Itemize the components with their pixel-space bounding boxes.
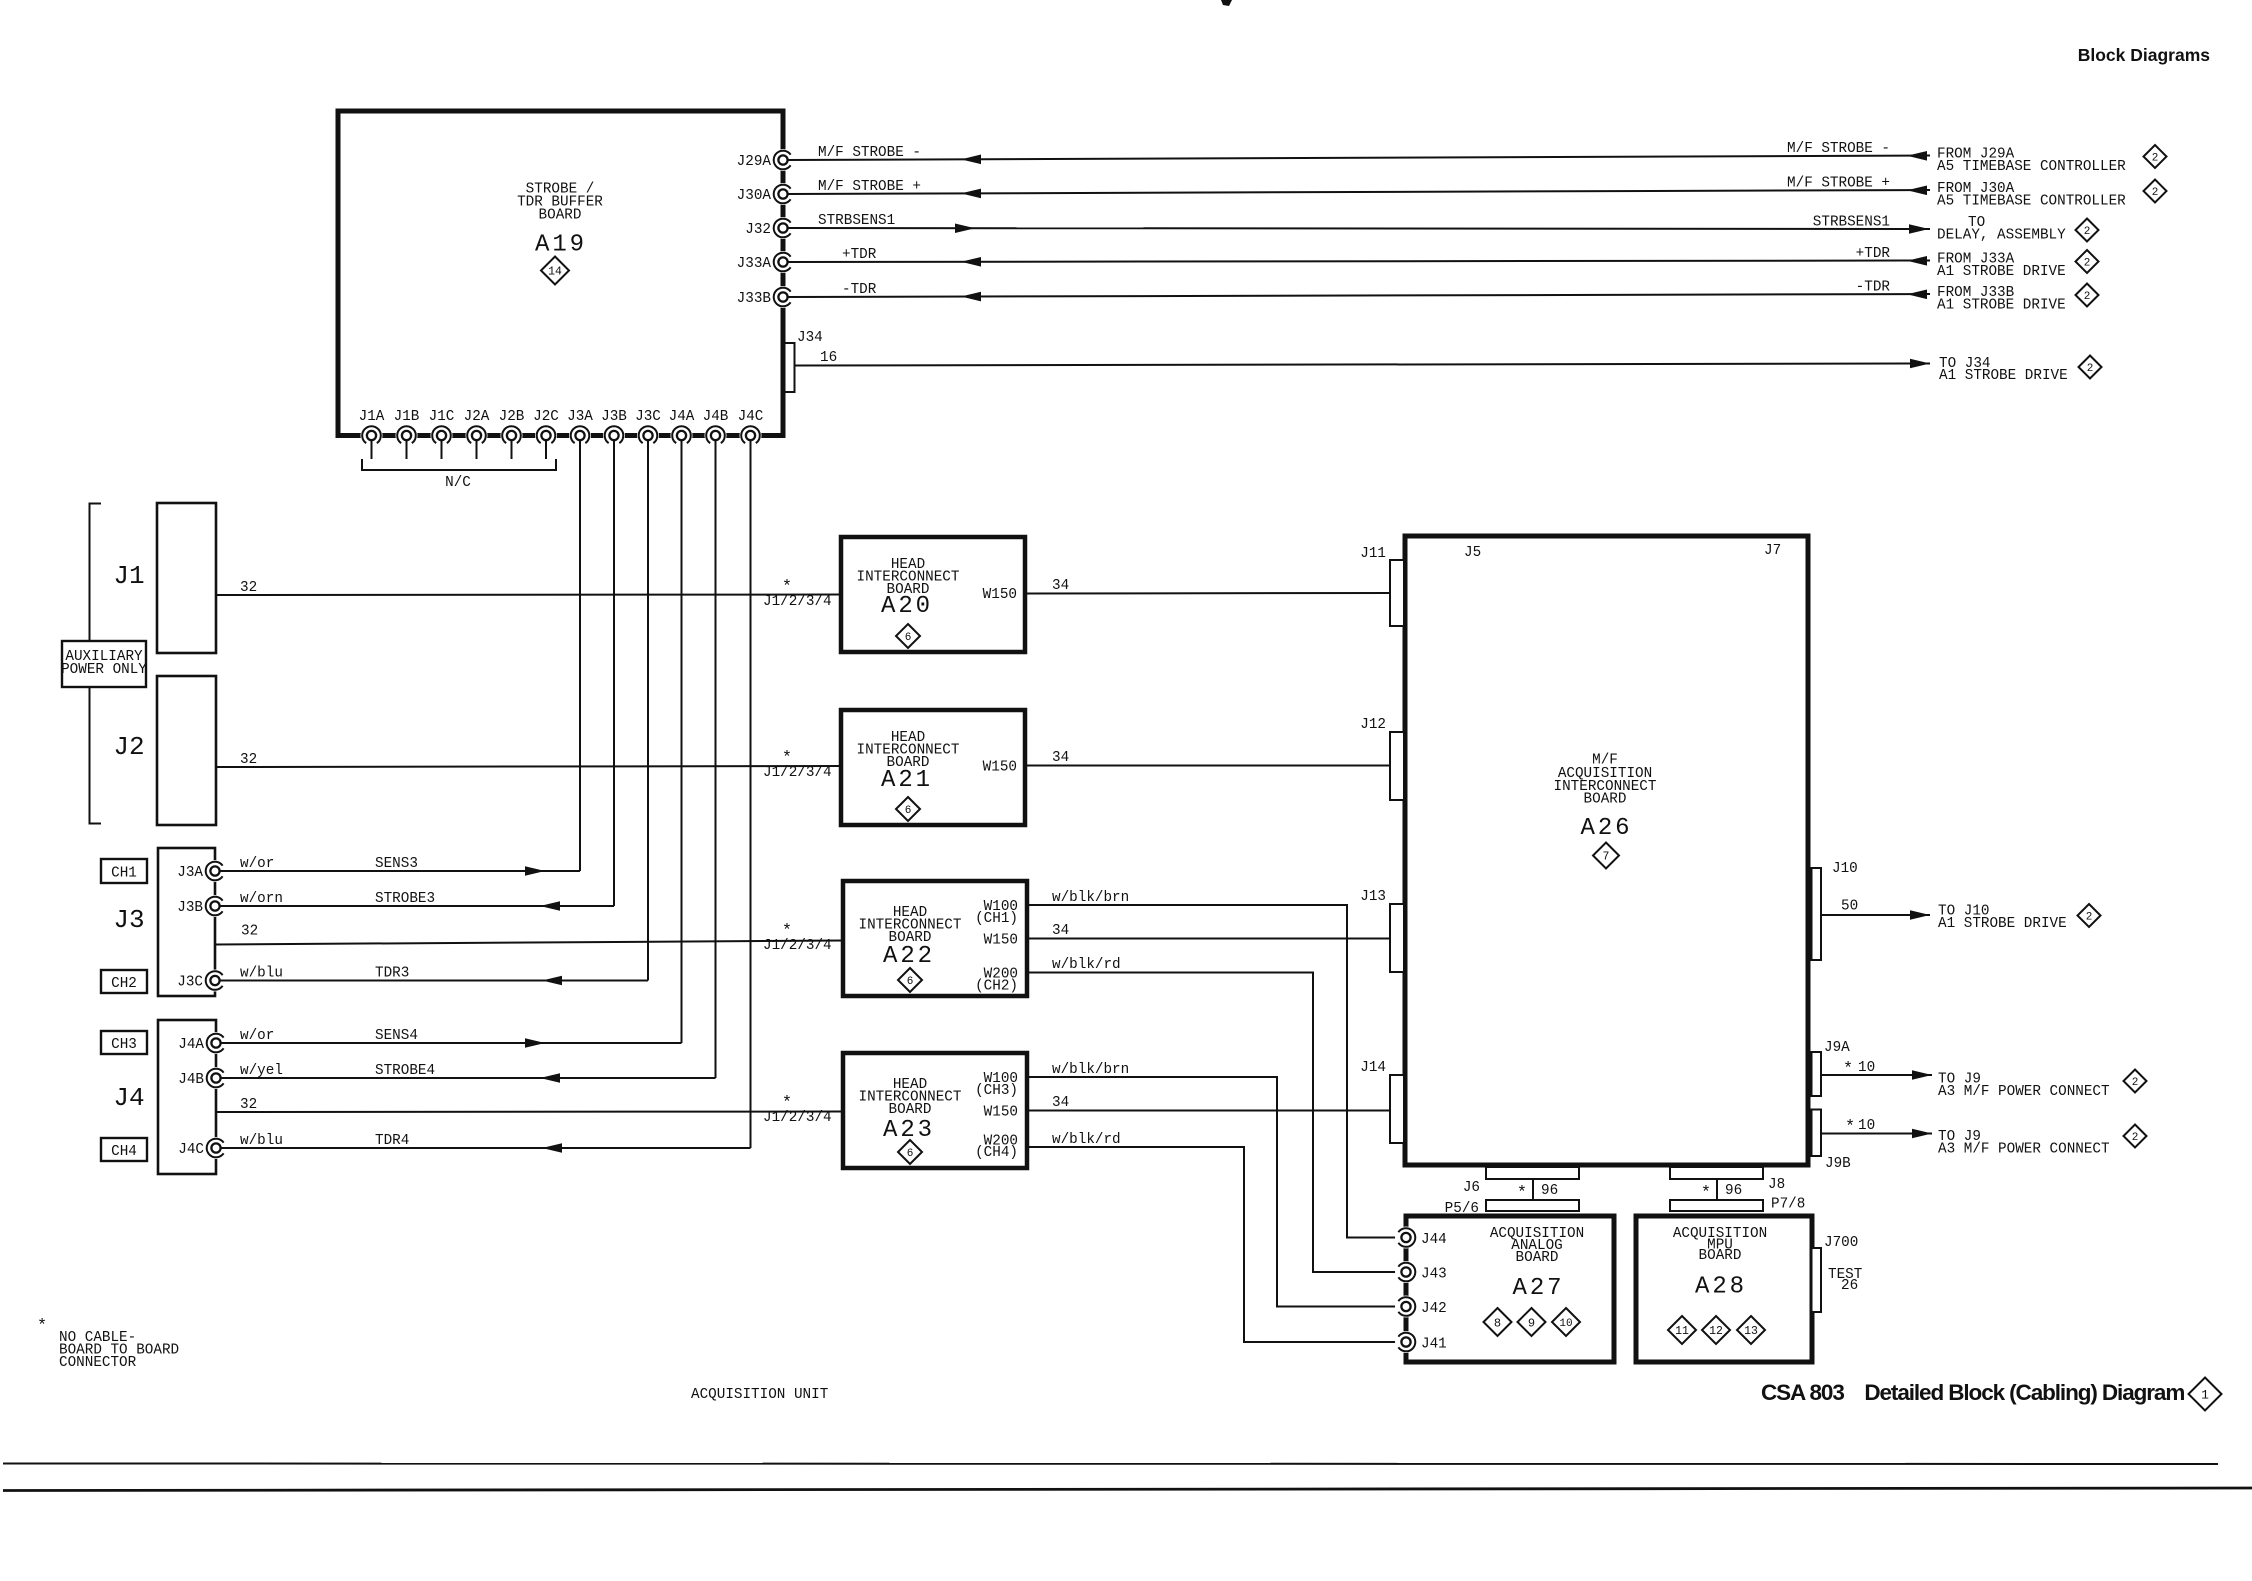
board A28 outline (ACQUISITION MPU BOARD): [1636, 1216, 1812, 1362]
svg-text:*: *: [37, 1317, 47, 1336]
connector J4B: [205, 1067, 227, 1089]
connector J43 on A27 left edge: [1395, 1261, 1417, 1283]
svg-text:J14: J14: [1360, 1060, 1386, 1076]
svg-text:34: 34: [1052, 923, 1069, 939]
connector J4C on A19 bottom edge: [740, 425, 762, 447]
channel label CH3: [101, 1031, 147, 1054]
svg-text:J4B: J4B: [178, 1072, 204, 1088]
svg-text:CH4: CH4: [111, 1144, 137, 1160]
connector J29A on A19 right edge: [772, 149, 794, 171]
svg-text:A22: A22: [883, 943, 935, 970]
wire A20 W150 to A26 J11, 34 conductors: [1025, 592, 1391, 595]
footer rule lower: [3, 1488, 2252, 1491]
connector J10 on A26 right edge: [1812, 868, 1822, 960]
svg-text:2: 2: [2087, 363, 2094, 375]
diamond 6 (A22): [898, 968, 922, 992]
svg-text:1: 1: [2201, 1388, 2209, 1403]
wire J10 to A1 strobe drive, 50 conductors: [1822, 914, 1931, 916]
svg-text:CH1: CH1: [111, 866, 137, 882]
svg-text:32: 32: [241, 924, 258, 940]
channel label CH2: [101, 970, 147, 993]
svg-text:J2A: J2A: [464, 409, 490, 425]
wire J9B to A3 M/F power connect, 10 conductors: [1821, 1133, 1932, 1135]
svg-text:J9B: J9B: [1825, 1156, 1851, 1172]
connector J1B on A19 bottom edge: [396, 425, 418, 447]
svg-text:+TDR: +TDR: [1856, 246, 1891, 262]
svg-text:TDR4: TDR4: [375, 1133, 409, 1149]
svg-text:J1B: J1B: [394, 409, 420, 425]
connector J3B: [204, 895, 226, 917]
svg-text:10: 10: [1858, 1060, 1875, 1076]
svg-text:34: 34: [1052, 750, 1069, 766]
diamond 7 (A26): [1593, 843, 1619, 869]
wire A22 W100 (w/blk/brn) to A27 J44: [1027, 905, 1401, 1238]
svg-text:-TDR: -TDR: [842, 282, 877, 298]
diamond 11 (A28): [1668, 1316, 1696, 1344]
svg-text:W150: W150: [984, 933, 1018, 949]
svg-text:-TDR: -TDR: [1856, 279, 1891, 295]
svg-text:6: 6: [905, 805, 912, 817]
connector J2A on A19 bottom edge: [466, 425, 488, 447]
svg-text:SENS3: SENS3: [375, 856, 418, 872]
svg-text:M/F STROBE -: M/F STROBE -: [1787, 141, 1890, 157]
svg-text:26: 26: [1841, 1278, 1858, 1294]
connector J4A on A19 bottom edge: [671, 425, 693, 447]
svg-text:J9A: J9A: [1824, 1040, 1850, 1056]
svg-text:J41: J41: [1421, 1337, 1447, 1353]
connector J3C on A19 bottom edge: [637, 425, 659, 447]
wire +TDR: [787, 261, 1930, 263]
connector J3A: [204, 860, 226, 882]
board A21 (HEAD INTERCONNECT BOARD): [841, 710, 1025, 825]
wire STROBE4 from A19 to J4B: [220, 1077, 716, 1079]
connector J34 on A19 right edge: [785, 343, 795, 392]
svg-text:STROBE4: STROBE4: [375, 1063, 435, 1079]
svg-text:CH3: CH3: [111, 1037, 137, 1053]
wire SENS3 from J3A to A19: [219, 870, 580, 872]
svg-text:J1A: J1A: [359, 409, 385, 425]
connector J3B on A19 bottom edge: [603, 425, 625, 447]
svg-text:w/blk/brn: w/blk/brn: [1052, 890, 1129, 906]
wire from A19 J4C down to TDR4 line: [750, 440, 752, 1149]
diamond 2 (J9A row): [2124, 1070, 2147, 1093]
connector block J2: [157, 676, 216, 825]
svg-text:J7: J7: [1764, 543, 1781, 559]
svg-text:A5 TIMEBASE CONTROLLER: A5 TIMEBASE CONTROLLER: [1937, 193, 2126, 209]
connector block J1: [157, 503, 216, 653]
svg-text:BOARD: BOARD: [1699, 1248, 1742, 1264]
svg-text:(CH4): (CH4): [975, 1145, 1018, 1161]
board A26 outline (M/F ACQUISITION INTERCONNECT BOARD): [1405, 536, 1808, 1165]
wire from A19 J3B down to STROBE3 line: [613, 440, 615, 907]
wire J9A to A3 M/F power connect, 10 conductors: [1821, 1074, 1932, 1076]
svg-text:A5 TIMEBASE CONTROLLER: A5 TIMEBASE CONTROLLER: [1937, 159, 2126, 175]
svg-text:J30A: J30A: [737, 188, 772, 204]
svg-text:J42: J42: [1421, 1301, 1447, 1317]
wire from A19 J4B down to STROBE4 line: [715, 440, 717, 1079]
svg-text:J34: J34: [797, 330, 823, 346]
svg-text:13: 13: [1744, 1325, 1758, 1338]
svg-text:10: 10: [1858, 1118, 1875, 1134]
svg-text:10: 10: [1559, 1318, 1572, 1330]
wire J4 to A23, 32 conductors: [216, 1111, 843, 1114]
svg-text:7: 7: [1603, 851, 1610, 864]
svg-text:J1/2/3/4: J1/2/3/4: [763, 765, 832, 781]
connector J11 on A26 left edge: [1390, 560, 1404, 626]
stray scan mark top center: [1221, 0, 1232, 6]
svg-text:A3 M/F POWER CONNECT: A3 M/F POWER CONNECT: [1938, 1084, 2110, 1100]
bracket grouping J1 and J2: [90, 504, 102, 824]
svg-text:A1 STROBE DRIVE: A1 STROBE DRIVE: [1939, 368, 2068, 384]
svg-text:*: *: [1845, 1118, 1855, 1137]
wire STROBE3 from A19 to J3B: [219, 905, 614, 907]
svg-text:J3A: J3A: [567, 409, 593, 425]
svg-text:P7/8: P7/8: [1771, 1197, 1805, 1213]
wire J8 to P7/8, 96 conductors: [1716, 1179, 1718, 1200]
svg-text:BOARD: BOARD: [1584, 792, 1627, 808]
diamond 2: [2076, 284, 2099, 307]
connector J3C: [204, 970, 226, 992]
svg-text:J29A: J29A: [737, 154, 772, 170]
svg-text:w/orn: w/orn: [240, 891, 283, 907]
wire SENS4 from J4A to A19: [220, 1042, 682, 1044]
svg-text:N/C: N/C: [445, 475, 471, 491]
wire from A19 J3C down to TDR3 line: [647, 440, 649, 981]
svg-text:J10: J10: [1832, 861, 1858, 877]
svg-text:2: 2: [2086, 911, 2093, 923]
svg-text:J4C: J4C: [738, 409, 764, 425]
wire TDR4 from A19 to J4C: [220, 1147, 751, 1149]
svg-text:A21: A21: [881, 767, 933, 794]
svg-text:*: *: [1843, 1060, 1853, 1079]
connector J13 on A26 left edge: [1390, 904, 1404, 972]
svg-text:6: 6: [905, 632, 912, 644]
svg-text:J1/2/3/4: J1/2/3/4: [763, 1110, 832, 1126]
channel label CH4: [101, 1138, 147, 1161]
board A20 (HEAD INTERCONNECT BOARD): [841, 537, 1025, 652]
svg-text:J4A: J4A: [669, 409, 695, 425]
svg-text:A1 STROBE DRIVE: A1 STROBE DRIVE: [1937, 264, 2066, 280]
wire A23 W200 (w/blk/rd) to A27 J41: [1027, 1147, 1401, 1342]
svg-text:2: 2: [2152, 152, 2159, 164]
svg-text:STROBE3: STROBE3: [375, 891, 435, 907]
connector block J4: [158, 1020, 216, 1174]
svg-text:A26: A26: [1581, 815, 1633, 842]
svg-text:w/yel: w/yel: [240, 1063, 283, 1079]
wire J6 to P5/6, 96 conductors: [1532, 1179, 1534, 1200]
svg-text:11: 11: [1675, 1325, 1689, 1338]
wire -TDR: [787, 294, 1930, 297]
svg-text:CSA 803 Detailed Block (Cab: CSA 803 Detailed Block (Cabling) Diagram: [1761, 1380, 2184, 1405]
diamond 2: [2144, 180, 2167, 203]
connector J14 on A26 left edge: [1390, 1075, 1404, 1143]
diamond 6 (A20): [896, 624, 920, 648]
wire M/F STROBE +: [787, 190, 1930, 194]
wire A22 W150 to A26 J13, 34 conductors: [1027, 938, 1392, 940]
connector J2B on A19 bottom edge: [501, 425, 523, 447]
svg-text:M/F STROBE -: M/F STROBE -: [818, 145, 921, 161]
svg-text:12: 12: [1709, 1325, 1723, 1338]
svg-text:J1/2/3/4: J1/2/3/4: [763, 594, 832, 610]
connector J9A on A26 right edge: [1812, 1052, 1822, 1096]
svg-text:J44: J44: [1421, 1232, 1447, 1248]
svg-text:w/blk/brn: w/blk/brn: [1052, 1062, 1129, 1078]
board A19 outline (STROBE/TDR BUFFER BOARD): [338, 111, 783, 436]
svg-text:J13: J13: [1360, 889, 1386, 905]
connector block J3: [158, 848, 215, 996]
svg-text:w/or: w/or: [240, 1028, 274, 1044]
svg-text:2: 2: [2084, 291, 2091, 303]
svg-text:(CH2): (CH2): [975, 979, 1018, 995]
svg-text:J8: J8: [1768, 1177, 1785, 1193]
svg-text:J5: J5: [1464, 545, 1481, 561]
channel label CH1: [101, 859, 147, 883]
note box AUXILIARY POWER ONLY: [62, 641, 146, 687]
svg-text:M/F STROBE +: M/F STROBE +: [818, 179, 921, 195]
svg-text:A1 STROBE DRIVE: A1 STROBE DRIVE: [1938, 916, 2067, 932]
svg-text:2: 2: [2132, 1132, 2139, 1144]
wire J2 to A21, 32 conductors: [216, 766, 843, 767]
svg-text:J33A: J33A: [737, 256, 772, 272]
svg-text:J33B: J33B: [737, 291, 772, 307]
svg-text:2: 2: [2132, 1077, 2139, 1089]
svg-text:J700: J700: [1824, 1235, 1858, 1251]
svg-text:34: 34: [1052, 578, 1069, 594]
wire J1 to A20, 32 conductors: [216, 594, 843, 597]
connector J6 on A26 bottom edge: [1486, 1167, 1579, 1179]
diamond 13 (A28): [1737, 1316, 1765, 1344]
diamond 2: [2144, 145, 2167, 168]
svg-text:w/blu: w/blu: [240, 966, 283, 982]
svg-text:POWER ONLY: POWER ONLY: [61, 662, 147, 678]
svg-text:ACQUISITION UNIT: ACQUISITION UNIT: [691, 1387, 829, 1403]
connector J12 on A26 left edge: [1390, 732, 1404, 800]
connector J44 on A27 left edge: [1395, 1227, 1417, 1249]
svg-text:J4A: J4A: [178, 1037, 204, 1053]
svg-text:A20: A20: [881, 593, 933, 620]
svg-text:BOARD: BOARD: [889, 1102, 932, 1118]
svg-text:w/or: w/or: [240, 856, 274, 872]
wire A23 W150 to A26 J14, 34 conductors: [1027, 1110, 1392, 1112]
svg-text:J1: J1: [113, 561, 144, 591]
diamond 2: [2076, 250, 2099, 273]
svg-text:96: 96: [1725, 1183, 1742, 1199]
svg-text:J1/2/3/4: J1/2/3/4: [763, 938, 832, 954]
svg-text:CONNECTOR: CONNECTOR: [59, 1355, 137, 1371]
svg-text:J3C: J3C: [177, 975, 203, 991]
diamond 6 (A23): [898, 1140, 922, 1164]
connector J2C on A19 bottom edge: [535, 425, 557, 447]
connector J700 on A28 right edge: [1812, 1248, 1822, 1312]
svg-text:w/blu: w/blu: [240, 1133, 283, 1149]
svg-text:W150: W150: [983, 760, 1017, 776]
svg-text:J2B: J2B: [499, 409, 525, 425]
diamond 2: [2076, 219, 2099, 242]
diamond 1 (title): [2189, 1378, 2222, 1411]
svg-text:J1C: J1C: [429, 409, 455, 425]
svg-text:Block Diagrams: Block Diagrams: [2078, 45, 2211, 65]
connector J33A on A19 right edge: [772, 251, 794, 273]
wire from A19 J4A down to SENS4 line: [681, 440, 683, 1044]
svg-text:2: 2: [2084, 257, 2091, 269]
diamond 14 (A19): [541, 257, 569, 285]
svg-text:J3B: J3B: [177, 900, 203, 916]
svg-text:STRBSENS1: STRBSENS1: [1813, 214, 1890, 230]
connector J4B on A19 bottom edge: [705, 425, 727, 447]
svg-text:TDR3: TDR3: [375, 966, 409, 982]
svg-text:w/blk/rd: w/blk/rd: [1052, 957, 1121, 973]
svg-text:J32: J32: [745, 222, 771, 238]
svg-text:J4B: J4B: [703, 409, 729, 425]
diamond 9 (A27): [1518, 1308, 1546, 1336]
wire from A19 J3A down to SENS3 line: [579, 440, 581, 872]
connector J42 on A27 left edge: [1395, 1296, 1417, 1318]
svg-text:J3: J3: [113, 905, 144, 935]
svg-text:32: 32: [240, 580, 257, 596]
svg-text:J6: J6: [1463, 1180, 1480, 1196]
svg-text:96: 96: [1541, 1183, 1558, 1199]
N/C stubs from J1A-J2C: [371, 440, 373, 460]
connector J1C on A19 bottom edge: [431, 425, 453, 447]
svg-text:14: 14: [548, 266, 562, 279]
wire A21 W150 to A26 J12, 34 conductors: [1025, 765, 1391, 767]
svg-text:32: 32: [240, 1097, 257, 1113]
svg-text:J3B: J3B: [601, 409, 627, 425]
svg-text:(CH3): (CH3): [975, 1083, 1018, 1099]
diamond 8 (A27): [1484, 1308, 1512, 1336]
wire J34 to A1 strobe drive, 16 conductors: [795, 364, 1931, 366]
connector J33B on A19 right edge: [772, 286, 794, 308]
svg-text:(CH1): (CH1): [975, 911, 1018, 927]
svg-text:SENS4: SENS4: [375, 1028, 418, 1044]
wire A23 W100 (w/blk/brn) to A27 J42: [1027, 1077, 1401, 1307]
diamond 2 (J10 row): [2078, 904, 2101, 927]
svg-text:A27: A27: [1513, 1275, 1565, 1302]
connector J32 on A19 right edge: [772, 217, 794, 239]
svg-text:W150: W150: [984, 1105, 1018, 1121]
board A27 outline (ACQUISITION ANALOG BOARD): [1406, 1216, 1614, 1362]
connector P5/6 on A27 top edge: [1486, 1200, 1579, 1211]
diamond 2 (J9B row): [2124, 1125, 2147, 1148]
svg-text:A28: A28: [1695, 1274, 1747, 1301]
svg-text:DELAY, ASSEMBLY: DELAY, ASSEMBLY: [1937, 227, 2066, 243]
footer rule upper: [3, 1463, 2218, 1466]
svg-text:J3A: J3A: [177, 865, 203, 881]
board A23 (HEAD INTERCONNECT BOARD): [843, 1053, 1027, 1168]
svg-text:J12: J12: [1360, 717, 1386, 733]
svg-text:J11: J11: [1360, 546, 1386, 562]
svg-text:J43: J43: [1421, 1267, 1447, 1283]
svg-text:J2: J2: [113, 732, 144, 762]
connector J4C: [205, 1137, 227, 1159]
connector J9B on A26 right edge: [1812, 1110, 1822, 1157]
svg-text:J2C: J2C: [533, 409, 559, 425]
svg-text:6: 6: [907, 1148, 914, 1160]
svg-text:50: 50: [1841, 899, 1858, 915]
svg-text:M/F STROBE +: M/F STROBE +: [1787, 175, 1890, 191]
svg-text:BOARD: BOARD: [1516, 1250, 1559, 1266]
svg-text:6: 6: [907, 976, 914, 988]
connector J30A on A19 right edge: [772, 183, 794, 205]
connector J8 on A26 bottom edge: [1670, 1167, 1763, 1179]
board A22 (HEAD INTERCONNECT BOARD): [843, 881, 1027, 996]
svg-text:+TDR: +TDR: [842, 247, 877, 263]
connector J41 on A27 left edge: [1395, 1331, 1417, 1353]
diamond 12 (A28): [1702, 1316, 1730, 1344]
connector J1A on A19 bottom edge: [361, 425, 383, 447]
diamond 2 (J34 row): [2079, 356, 2102, 379]
wire J3 to A22, 32 conductors: [215, 941, 843, 945]
wire A22 W200 (w/blk/rd) to A27 J43: [1027, 973, 1401, 1273]
svg-text:8: 8: [1494, 1316, 1501, 1330]
svg-text:2: 2: [2152, 187, 2159, 199]
svg-text:J4C: J4C: [178, 1142, 204, 1158]
svg-text:STRBSENS1: STRBSENS1: [818, 213, 895, 229]
svg-text:W150: W150: [983, 587, 1017, 603]
svg-text:2: 2: [2084, 226, 2091, 238]
svg-text:32: 32: [240, 752, 257, 768]
connector J3A on A19 bottom edge: [569, 425, 591, 447]
svg-text:A3 M/F POWER CONNECT: A3 M/F POWER CONNECT: [1938, 1142, 2110, 1158]
svg-text:A1 STROBE DRIVE: A1 STROBE DRIVE: [1937, 297, 2066, 313]
svg-text:A19: A19: [535, 232, 587, 259]
svg-text:CH2: CH2: [111, 976, 137, 992]
wire M/F STROBE -: [787, 156, 1930, 161]
svg-text:BOARD: BOARD: [539, 208, 582, 224]
svg-text:16: 16: [820, 350, 837, 366]
diamond 10 (A27): [1552, 1308, 1580, 1336]
svg-text:J3C: J3C: [635, 409, 661, 425]
svg-text:9: 9: [1528, 1316, 1535, 1330]
diamond 6 (A21): [896, 797, 920, 821]
svg-text:34: 34: [1052, 1095, 1069, 1111]
N/C bracket: [362, 459, 556, 470]
wire TDR3 from A19 to J3C: [219, 980, 648, 982]
connector P7/8 on A28 top edge: [1670, 1200, 1763, 1211]
svg-text:w/blk/rd: w/blk/rd: [1052, 1132, 1121, 1148]
wire STRBSENS1: [787, 228, 1930, 229]
svg-text:J4: J4: [113, 1083, 144, 1113]
connector J4A: [205, 1032, 227, 1054]
